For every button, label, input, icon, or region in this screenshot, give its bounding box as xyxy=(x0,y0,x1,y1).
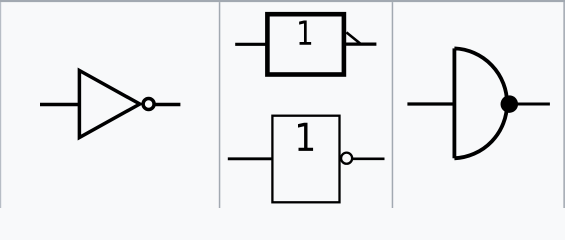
IEC inverter U2: output wire xyxy=(346,42,376,45)
IEC inverter U3 (bubble style): input wire xyxy=(228,157,272,160)
ANSI inverter U1: output wire xyxy=(155,103,181,107)
IEC inverter U3: label "1" xyxy=(298,123,313,151)
IEC inverter U2: polarity wedge on output xyxy=(346,32,360,43)
ANSI inverter U1: negation bubble xyxy=(143,99,154,110)
DIN inverter U4: half-circle body xyxy=(454,48,507,158)
DIN inverter U4: filled negation dot xyxy=(501,95,519,113)
IEC inverter U2: label "1" xyxy=(299,20,311,44)
DIN inverter U4: output wire xyxy=(514,103,550,106)
ANSI inverter U1: input wire xyxy=(40,103,81,107)
IEC inverter U3: negation bubble xyxy=(341,153,352,164)
IEC inverter U3: rectangular body xyxy=(272,116,339,203)
IEC inverter U3: output wire xyxy=(353,157,385,160)
IEC inverter U2 (wedge style): input wire xyxy=(235,43,267,46)
ANSI inverter U1: triangle body xyxy=(79,71,139,138)
DIN inverter U4: input wire xyxy=(407,102,456,105)
IEC inverter U2: rectangular body xyxy=(267,14,344,74)
